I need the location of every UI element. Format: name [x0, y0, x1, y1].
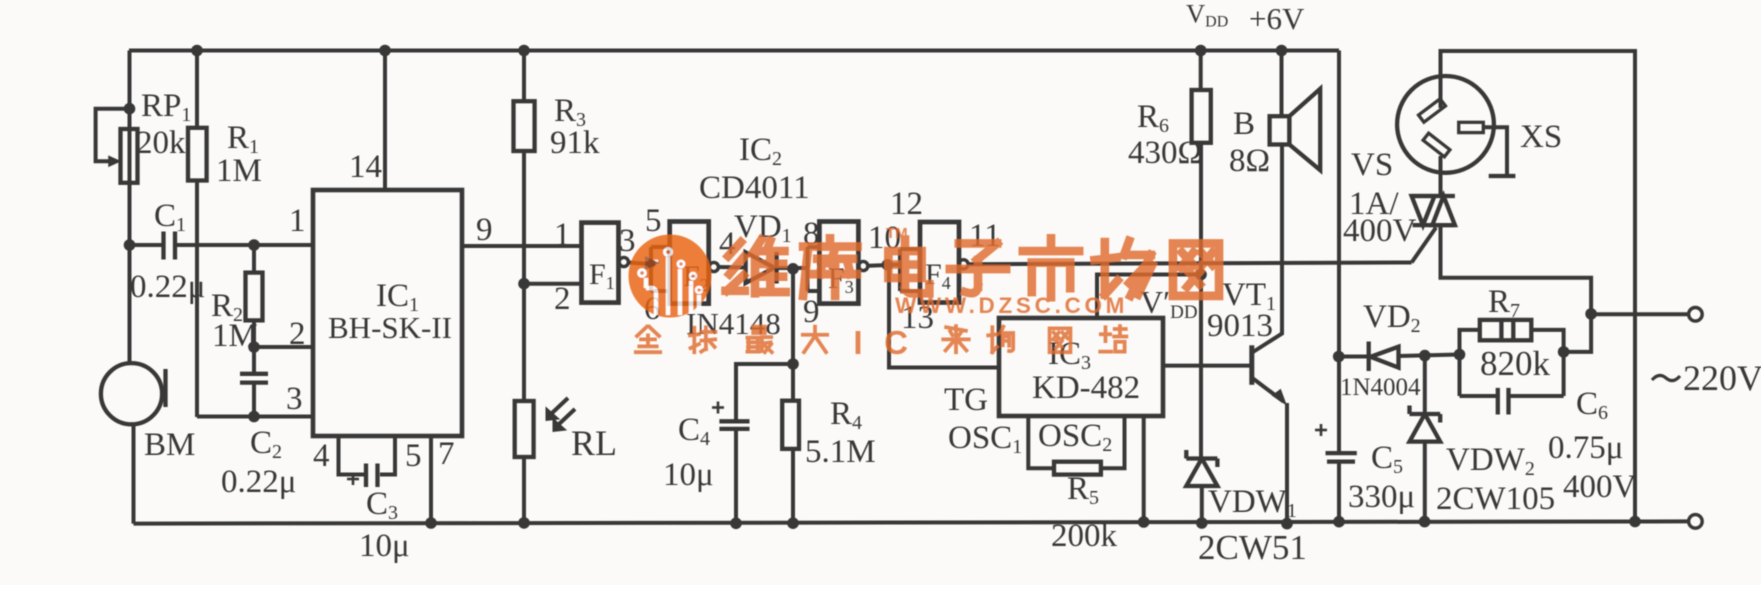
svg-text:220V: 220V	[1683, 358, 1761, 398]
svg-text:BM: BM	[144, 427, 195, 463]
wire VD2 to snubber	[1399, 355, 1460, 357]
triac VS top bar	[1412, 194, 1455, 198]
wire IC1 pin 5 stub	[380, 436, 395, 475]
label VS	[1351, 147, 1393, 183]
transistor VT1 emitter arrowhead	[1273, 390, 1287, 405]
label gate pin 13	[901, 300, 934, 336]
wire RL bottom to ground	[522, 457, 526, 523]
wire C6 bottom branch right	[1509, 394, 1564, 398]
diode VD1	[746, 252, 777, 284]
wire VDD right branch down	[1337, 51, 1341, 454]
svg-text:2CW51: 2CW51	[1198, 528, 1307, 567]
wire VD1 cathode to F3 inputs	[777, 266, 808, 270]
label TG	[944, 382, 988, 418]
wire IC3 ground pin	[1142, 416, 1146, 522]
resistor R1 body	[188, 128, 207, 181]
wire triac gate diagonal	[1412, 228, 1436, 263]
label pin 5	[405, 438, 422, 474]
wire triac top to XS	[1439, 156, 1443, 196]
node pin7 ground junction	[425, 517, 437, 529]
wire F4 output to triac VS gate	[968, 263, 1412, 265]
wire C1 right segment to IC1 pin 1	[175, 243, 313, 247]
wire left vertical from top rail to BM	[130, 51, 132, 364]
node R1 top rail junction	[191, 45, 203, 57]
capacitor C3 plus sign	[347, 473, 359, 485]
wire R6 top	[1199, 51, 1203, 92]
label C3 value 10u	[359, 528, 410, 564]
label F1 pin 1	[554, 217, 571, 253]
resistor R6 body	[1192, 90, 1211, 143]
node F4 input junction	[882, 259, 894, 271]
node C1 left junction	[124, 239, 136, 251]
wire top VDD rail	[129, 49, 1339, 53]
node RL ground junction	[518, 517, 530, 529]
label gate pin 11	[969, 218, 1001, 254]
wire F3 input bar	[808, 247, 820, 291]
label VDW2	[1446, 442, 1535, 480]
label VT1	[1222, 277, 1276, 315]
svg-text:3: 3	[286, 381, 303, 417]
label C6	[1576, 386, 1608, 424]
wire F1 output to F2 inputs	[628, 263, 651, 265]
svg-text:0.22μ: 0.22μ	[130, 269, 205, 305]
capacitor C1 plates	[164, 232, 176, 260]
label BM	[144, 427, 195, 463]
label pin 3	[286, 381, 303, 417]
label C4 value 10u	[663, 457, 714, 493]
svg-text:2CW105: 2CW105	[1436, 481, 1555, 517]
transistor VT1 emitter	[1253, 379, 1284, 402]
label KD-482	[1032, 370, 1140, 406]
svg-text:5: 5	[645, 203, 662, 239]
svg-text:VDW2: VDW2	[1446, 442, 1535, 480]
wire R2 bottom	[252, 320, 256, 348]
socket XS circle	[1397, 76, 1494, 173]
node VDW1 ground junction	[1196, 517, 1208, 529]
node V'DD junction	[1195, 269, 1207, 281]
wire R3 top	[522, 51, 526, 103]
node R7 right junction	[1558, 346, 1570, 358]
label R7	[1488, 284, 1520, 322]
op-amp IC1 BH-SK-II box	[313, 190, 462, 436]
svg-text:C: C	[884, 324, 908, 361]
label gate pin 10	[868, 220, 901, 256]
potentiometer RP1 wiper arrowhead	[109, 157, 120, 167]
label VDW1	[1208, 484, 1297, 522]
socket XS slot right	[1459, 122, 1484, 132]
label BH-SK-II	[328, 310, 452, 345]
svg-text:12: 12	[890, 186, 923, 222]
label F1 pin 2	[554, 281, 571, 317]
svg-text:91k: 91k	[550, 125, 600, 161]
svg-text:B: B	[1233, 106, 1255, 142]
wire speaker top	[1280, 51, 1284, 117]
label C5	[1371, 440, 1403, 478]
wire R1 top	[195, 51, 199, 129]
label pin 1	[289, 203, 306, 239]
label R1	[227, 120, 259, 158]
label C6 value 0.75u	[1548, 430, 1623, 466]
wire bottom ground rail	[134, 521, 1690, 523]
svg-text:20k: 20k	[136, 125, 186, 161]
svg-text:0.22μ: 0.22μ	[221, 464, 296, 500]
nand gate F1 output bubble	[619, 257, 628, 266]
nand gate F4 box	[920, 222, 959, 303]
label IC2	[739, 132, 782, 170]
wire VDW1 bottom	[1200, 486, 1204, 523]
node R2 top junction	[248, 239, 260, 251]
svg-text:9: 9	[476, 212, 493, 248]
label IC3	[1048, 336, 1091, 374]
svg-text:VS: VS	[1351, 147, 1393, 183]
capacitor C2 plates	[240, 349, 268, 416]
svg-text:400V: 400V	[1563, 469, 1637, 505]
label gate pin 5	[645, 203, 662, 239]
node F1 input2 junction	[518, 278, 530, 290]
wire IC1 pin 2	[254, 345, 313, 349]
svg-text:OSC1: OSC1	[948, 420, 1022, 458]
label gate pin 6	[644, 291, 661, 327]
label OSC2	[1038, 418, 1112, 456]
svg-text:0.75μ: 0.75μ	[1548, 430, 1623, 466]
label VDW2 type 2CW105	[1436, 481, 1555, 517]
label RL	[571, 423, 617, 463]
wire R3 bottom to RL	[522, 151, 526, 402]
label VS rating 400V	[1343, 213, 1417, 249]
resistor R3 body	[514, 101, 535, 151]
label VD2 type 1N4004	[1340, 374, 1421, 401]
svg-text:7: 7	[438, 436, 455, 472]
label gate pin 12	[890, 186, 923, 222]
label F3	[828, 262, 854, 297]
nand gate F2 box	[670, 222, 709, 304]
wire OSC2 stub	[1101, 416, 1125, 468]
node R3 top rail junction	[518, 45, 530, 57]
diode VD2	[1369, 342, 1399, 372]
node VDW2 ground junction	[1419, 516, 1431, 528]
wire emitter to ground	[1285, 403, 1289, 524]
microphone BM circle	[101, 363, 162, 424]
label C6 rating 400V	[1563, 469, 1637, 505]
wire to AC terminal top	[1591, 312, 1689, 316]
label CD4011	[699, 170, 810, 206]
wire C4 bottom to ground	[734, 429, 738, 523]
wire C6 bottom branch left	[1460, 394, 1498, 398]
nand gate F3 output bubble	[859, 261, 868, 270]
svg-text:10μ: 10μ	[359, 528, 410, 564]
potentiometer RP1 body	[121, 129, 138, 183]
transistor VT1 base bar	[1249, 345, 1254, 385]
svg-text:2: 2	[289, 316, 306, 352]
wire R2 top	[252, 245, 256, 274]
svg-text:TG: TG	[944, 382, 988, 418]
label IC1	[376, 278, 419, 316]
wire snubber to terminal node	[1564, 314, 1592, 352]
label pin 7	[438, 436, 455, 472]
node XS line ground junction	[1629, 516, 1641, 528]
label AC 220V	[1652, 358, 1761, 398]
label VS rating 1A/	[1349, 186, 1399, 222]
label VT1 type 9013	[1207, 308, 1273, 344]
node terminal line junction	[1585, 308, 1597, 320]
svg-text:1M: 1M	[216, 153, 262, 189]
label VD1	[734, 209, 792, 247]
svg-text:10μ: 10μ	[663, 457, 714, 493]
svg-text:9013: 9013	[1207, 308, 1273, 344]
wire triac bottom to terminal node	[1441, 225, 1592, 314]
wire F4 input bar	[900, 249, 920, 291]
svg-text:1: 1	[554, 217, 571, 253]
wire IC1 pin 9 to F1 input 1	[462, 244, 582, 248]
node C5 ground junction	[1333, 516, 1345, 528]
node R7 left junction	[1454, 349, 1466, 361]
wire IC1 pin 7 to ground rail	[429, 436, 433, 523]
nand gate F2 output bubble	[709, 262, 718, 271]
svg-text:VDW1: VDW1	[1208, 484, 1297, 522]
microphone BM electrode bar	[163, 369, 167, 407]
wire XS tap to ground symbol	[1483, 127, 1507, 176]
node VD2 left junction	[1333, 351, 1345, 363]
svg-text:BH-SK-II: BH-SK-II	[328, 310, 452, 345]
node pin14 rail junction	[379, 45, 391, 57]
capacitor C4 plates	[719, 421, 749, 429]
terminal top circle	[1689, 308, 1703, 322]
svg-text:I: I	[853, 324, 862, 361]
label R6 value 430	[1128, 135, 1202, 171]
zener diode VDW1	[1186, 450, 1217, 486]
resistor R4 body	[782, 364, 799, 523]
wire R7 left loop	[1460, 330, 1481, 396]
wire XS top loop	[1441, 51, 1636, 522]
label VDD +6V	[1186, 0, 1305, 36]
label B	[1233, 106, 1255, 142]
terminal bottom circle	[1689, 515, 1703, 529]
wire OSC1 stub	[1028, 416, 1054, 468]
node F2 input junction	[647, 260, 656, 269]
node RP1 wiper junction	[124, 103, 136, 115]
svg-text:330μ: 330μ	[1348, 479, 1415, 515]
svg-text:430Ω: 430Ω	[1128, 135, 1202, 171]
label R1 value 1M	[216, 153, 262, 189]
svg-text:XS: XS	[1520, 119, 1562, 155]
label F4	[925, 258, 951, 293]
wire IC1 pin 4 stub	[339, 436, 365, 475]
capacitor C5 plates	[1326, 453, 1357, 462]
label R2 value 1M	[212, 318, 258, 354]
wire TG loop to IC3	[889, 265, 999, 368]
music IC3 KD-482 box	[999, 318, 1163, 416]
wire F1 input 2	[524, 282, 582, 286]
node pin2 junction	[248, 341, 260, 353]
label R6	[1137, 99, 1169, 137]
node pin3 junction	[248, 411, 260, 423]
label R5 value 200k	[1051, 518, 1118, 554]
photoresistor RL arrows	[546, 398, 575, 432]
capacitor C4 plus sign	[712, 402, 724, 414]
wire C1 left segment	[130, 243, 164, 247]
label R5	[1067, 471, 1099, 509]
label gate pin 4	[719, 226, 736, 262]
wire F3 output to F4 inputs	[868, 265, 900, 266]
svg-text:KD-482: KD-482	[1032, 370, 1140, 406]
node R4 branch junction	[787, 263, 799, 275]
potentiometer RP1 wiper wire	[96, 109, 130, 162]
label R3 value 91k	[550, 125, 600, 161]
label C1	[154, 198, 186, 236]
wire IC3 VDD pin	[1097, 275, 1201, 319]
photoresistor RL body	[515, 401, 534, 457]
wire F2 input bar	[651, 247, 670, 291]
resistor R5 body	[1054, 462, 1101, 475]
svg-text:820k: 820k	[1480, 344, 1551, 383]
svg-text:8Ω: 8Ω	[1229, 143, 1270, 179]
wire F2 output to VD1	[718, 265, 746, 270]
wire R1 bottom down to pin3 line	[195, 181, 199, 418]
label pin 14	[349, 149, 382, 185]
svg-text:5: 5	[405, 438, 422, 474]
label F2	[683, 260, 709, 295]
svg-text:2: 2	[554, 281, 571, 317]
ground symbol at XS	[1489, 174, 1516, 178]
triac VS right triangle	[1432, 196, 1455, 225]
label R3	[554, 93, 586, 131]
svg-text:4: 4	[313, 438, 330, 474]
wire VDW2 bottom	[1423, 442, 1427, 522]
label V'DD	[1140, 284, 1198, 323]
node R6 top rail junction	[1195, 45, 1207, 57]
triac VS bottom bar	[1413, 223, 1455, 227]
label C2 value 0.22u	[221, 464, 296, 500]
label VD2	[1363, 299, 1421, 337]
socket XS slot upper-left	[1419, 99, 1446, 122]
label F1	[589, 258, 615, 293]
wire IC1 pin 3 line	[197, 415, 313, 419]
label IN4148	[686, 306, 781, 341]
wire VD1 node down to RC node	[791, 269, 795, 364]
node emitter ground junction	[1281, 518, 1293, 530]
wire VD2 anode	[1339, 355, 1369, 359]
svg-text:+6V: +6V	[1249, 1, 1305, 36]
capacitor C5 plus sign	[1315, 424, 1327, 436]
label pin 9	[476, 212, 493, 248]
label pin 4	[313, 438, 330, 474]
label C2	[250, 425, 282, 463]
svg-text:WWW.DZSC.COM: WWW.DZSC.COM	[895, 293, 1128, 318]
svg-text:3: 3	[619, 223, 636, 259]
label C3	[366, 486, 398, 524]
triac VS left triangle	[1412, 196, 1435, 225]
label OSC1	[948, 420, 1022, 458]
label C5 value 330u	[1348, 479, 1415, 515]
wire RC node to C4	[736, 364, 793, 421]
node R4 C4 junction	[787, 358, 799, 370]
node IC3 ground junction	[1138, 516, 1150, 528]
svg-text:200k: 200k	[1051, 518, 1118, 554]
speaker B box	[1270, 116, 1290, 144]
svg-text:1M: 1M	[212, 318, 258, 354]
nand gate F4 output bubble	[959, 260, 968, 269]
wire IC3 output to VT1 base	[1163, 364, 1250, 368]
wire VDW2 top	[1423, 356, 1427, 414]
label C4	[678, 412, 710, 450]
label gate pin 8	[803, 216, 820, 252]
nand gate F3 box	[819, 222, 858, 304]
node R4 ground junction	[787, 517, 799, 529]
wire R6 bottom through V'DD node	[1199, 143, 1203, 458]
capacitor C6 plates	[1498, 388, 1509, 415]
svg-text:14: 14	[349, 149, 382, 185]
label RP1	[141, 88, 191, 126]
wire BM bottom to ground rail	[132, 424, 136, 524]
label gate pin 9	[803, 294, 820, 330]
label XS	[1520, 119, 1562, 155]
nand gate F1 box	[582, 223, 619, 303]
label pin 2	[289, 316, 306, 352]
wire IC1 pin 14	[383, 51, 387, 191]
svg-text:1N4004: 1N4004	[1340, 374, 1421, 401]
label R4	[830, 396, 862, 434]
speaker B cone	[1289, 89, 1320, 170]
wire R7 right loop	[1531, 330, 1563, 396]
label R7 value 820k	[1480, 344, 1551, 383]
label C1 value 0.22u	[130, 269, 205, 305]
svg-text:CD4011: CD4011	[699, 170, 810, 206]
resistor R2 body	[246, 273, 263, 321]
svg-text:OSC2: OSC2	[1038, 418, 1112, 456]
transistor VT1 collector	[1253, 145, 1282, 353]
label R2	[211, 288, 243, 326]
label 20k	[136, 125, 186, 161]
socket XS slot lower-left	[1423, 133, 1450, 157]
svg-text:RL: RL	[571, 423, 617, 463]
capacitor C3 plates	[366, 464, 378, 488]
label VDW1 type 2CW51	[1198, 528, 1307, 567]
svg-text:1: 1	[289, 203, 306, 239]
label R4 value 5.1M	[805, 434, 876, 470]
zener diode VDW2	[1410, 406, 1441, 442]
node speaker top rail junction	[1276, 45, 1288, 57]
node C4 ground junction	[730, 518, 742, 530]
label B value 8ohm	[1229, 143, 1270, 179]
wire C5 bottom to ground	[1337, 462, 1341, 522]
node VDW2 top junction	[1419, 350, 1431, 362]
label gate pin 3	[619, 223, 636, 259]
svg-text:400V: 400V	[1343, 213, 1417, 249]
svg-text:5.1M: 5.1M	[805, 434, 876, 470]
resistor R7 body	[1480, 320, 1532, 340]
watermark dzsc.com logo and text	[629, 225, 1220, 361]
